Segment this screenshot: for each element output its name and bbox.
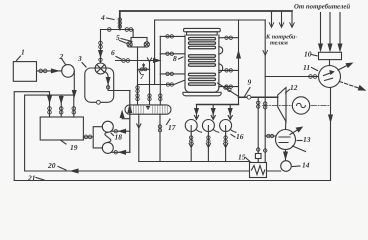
wire: gas top branch junction — [101, 29, 134, 31]
wire: drop B into box19 — [60, 95, 62, 117]
valve: on right branch — [125, 28, 129, 32]
wire: pump discharges — [112, 131, 130, 152]
wire: heater drop 3 — [229, 105, 231, 119]
svg-text:20: 20 — [47, 161, 56, 170]
vessel 17: deaerator drum — [125, 105, 171, 114]
svg-text:17: 17 — [168, 123, 176, 132]
regulator 7 — [138, 68, 150, 70]
valve: after tank1 — [39, 69, 43, 73]
svg-text:10: 10 — [304, 50, 312, 59]
wire: heater drain 3 — [225, 134, 227, 162]
pump S link — [105, 132, 111, 142]
svg-text:19: 19 — [70, 143, 78, 152]
shaft dash-dot — [263, 105, 330, 107]
arrow: into box10 d2 — [328, 44, 332, 51]
arrow: line 20 left flow — [72, 169, 79, 173]
wire: drop C into box19 — [73, 95, 75, 117]
wire: coil feed mid — [160, 53, 184, 55]
wire: gas line y=60.5 — [116, 60, 161, 62]
wire: drop to consumers 1 — [271, 12, 273, 26]
wire: heater drain 1 — [190, 134, 192, 162]
box 5: gas meters — [131, 38, 147, 48]
wire: heater drop 2 — [212, 105, 214, 119]
valve: suction from box19 — [83, 136, 93, 138]
wire: x=129.8 down — [129, 91, 131, 153]
arrow: into box10 d1 — [319, 44, 323, 51]
wire: vessel17 drop left — [138, 114, 140, 161]
condenser 13 — [276, 130, 296, 150]
wire: box5 bottom down — [137, 47, 139, 105]
jumper right 1-2 — [219, 47, 223, 55]
valve: out mid — [225, 69, 228, 72]
arrow open: on steam main — [263, 51, 268, 56]
svg-text:6: 6 — [111, 48, 115, 57]
wire: riser x=154.6 — [154, 20, 156, 85]
box 10: accumulator — [319, 52, 342, 59]
arrow open: consumers drop 2 — [279, 23, 284, 28]
wire: left branch down to burner — [100, 30, 102, 64]
valve: on left branch — [108, 28, 112, 32]
wire: left return outer — [14, 92, 49, 181]
wire: condenser lower-right — [293, 146, 306, 152]
wire: steam branch to circle 11 — [265, 76, 318, 78]
wire: return from consumers drop 1 — [320, 13, 322, 50]
wire: steam main down x=265.2 — [264, 20, 266, 97]
wire: heater drop 1 — [196, 105, 198, 119]
svg-text:14: 14 — [302, 161, 310, 170]
heater 16 c — [220, 120, 232, 132]
arrow: to pump2 — [52, 69, 59, 73]
wire: turbine exhaust to condenser — [285, 122, 287, 130]
pump 14 — [281, 161, 292, 172]
wire: jog to vessel — [122, 114, 130, 119]
valves on x=137.5 — [136, 86, 139, 89]
wire: cooler riser with square — [257, 97, 259, 162]
arrow: down on right line — [329, 115, 333, 122]
svg-text:телям: телям — [270, 39, 289, 46]
valve: out top — [225, 36, 228, 39]
valve: on y=84.5 — [166, 83, 169, 86]
wire: condensate header y=161.5 — [139, 161, 250, 163]
wire: boiler right line x=238.5 — [238, 20, 240, 105]
wire: coil out bottom — [219, 86, 239, 88]
wire: return from consumers drop 3 — [339, 13, 341, 50]
wire: line 21 bottom — [14, 180, 330, 182]
coil group 2 — [189, 55, 216, 66]
wire: pump2 down — [73, 72, 75, 96]
coil group 3 — [189, 73, 216, 85]
arrow: circle 11 out up-right — [338, 65, 349, 71]
svg-text:12: 12 — [290, 83, 298, 92]
wire: line 20 — [25, 170, 281, 172]
svg-text:1: 1 — [21, 48, 25, 57]
boiler 8: vessel outline — [183, 28, 221, 95]
svg-text:16: 16 — [236, 132, 244, 141]
valve 4 — [118, 18, 121, 21]
tank 3: oil tank — [85, 68, 114, 102]
arrow: up on x=238.5 — [237, 52, 241, 59]
wire: coil out top — [219, 37, 239, 39]
valve: out bottom — [225, 85, 228, 88]
svg-text:4: 4 — [100, 13, 105, 22]
heater 16 b — [202, 120, 214, 132]
wire: tank1 to pump2 — [37, 70, 62, 72]
arrow: into riser — [154, 59, 160, 63]
circle 11: heat exchanger — [319, 66, 341, 88]
small circle tank3 bottom — [97, 100, 101, 104]
svg-text:11: 11 — [303, 63, 310, 72]
wire: coil feed top — [160, 35, 184, 37]
wire: branch to condenser y=136 — [265, 135, 276, 137]
valve circle on steam line — [247, 95, 251, 99]
wire: drop to consumers 3 — [291, 11, 293, 26]
wire: circle 11 dashed out lower-right — [340, 82, 364, 90]
wire: boiler blowdown left y=84.5 — [138, 81, 185, 85]
wire: condenser to pump 14 — [285, 150, 287, 162]
wire: vessel17 drop right — [159, 114, 161, 161]
valve: feed mid — [166, 52, 169, 55]
wire: tank3 outlet — [105, 72, 130, 91]
wire: drop A into box19 — [49, 92, 51, 117]
box 19: water treatment — [40, 117, 83, 140]
valves on manifold bottom x=160.3 — [159, 94, 162, 97]
coil group 1 — [189, 38, 216, 49]
svg-text:18: 18 — [115, 133, 123, 142]
cooler 15 — [250, 163, 267, 178]
wire: left return inner — [25, 95, 74, 171]
turbine 12 — [278, 88, 286, 122]
wire: heater drain 2 — [207, 134, 209, 162]
wire: bypass down from steam crossing — [264, 97, 266, 162]
generator circle — [292, 97, 309, 114]
valve: feed top — [166, 35, 169, 38]
wire: coil feed bottom — [160, 73, 184, 75]
wire: diagonal boiler bottom-right — [218, 83, 239, 96]
box 1: fuel tank — [13, 62, 36, 82]
svg-text:21: 21 — [27, 174, 36, 183]
svg-text:9: 9 — [248, 78, 252, 87]
valve 6 — [122, 59, 126, 63]
svg-text:3: 3 — [77, 54, 82, 63]
jumper right 2-3 — [219, 64, 223, 73]
wire: coil out mid — [219, 69, 239, 71]
wire: drop to consumers 2 — [281, 12, 283, 26]
pump 2 — [62, 65, 75, 78]
valve: on diagonal — [224, 86, 227, 89]
wire: main top gas/heat line y=11 — [120, 11, 292, 30]
arrow: condenser up-right — [290, 129, 299, 135]
wire: steam main y=20 — [155, 19, 266, 21]
wire: coil manifold x=160.3 — [159, 36, 161, 104]
arrow open: consumers drop 3 — [290, 23, 295, 28]
valve: feed bottom — [166, 72, 169, 75]
wire: steam line to turbine y=97.2 — [239, 96, 278, 98]
svg-text:15: 15 — [238, 153, 246, 162]
svg-text:От потребителей: От потребителей — [294, 4, 350, 11]
svg-text:13: 13 — [303, 135, 311, 144]
arrow open: consumers drop 1 — [269, 23, 274, 28]
wire: box10 to circle 11 — [329, 60, 331, 66]
arrow: into box10 d3 — [338, 44, 342, 51]
wire: right branch down to box5 — [132, 30, 134, 38]
svg-text:8: 8 — [173, 54, 177, 63]
valve: before circle 11 — [309, 75, 313, 79]
wire: circle 11 down to bottom frame — [330, 88, 332, 181]
burner circle on tank3 — [95, 63, 106, 74]
pumps 18 — [102, 121, 113, 132]
wire: header to heaters y=105 — [197, 104, 239, 106]
wire: gas corner down x=149.5 — [149, 61, 151, 105]
wire: return from consumers drop 2 — [329, 13, 331, 50]
heater 16 a — [185, 120, 197, 132]
wire: pump suction header — [93, 127, 102, 148]
